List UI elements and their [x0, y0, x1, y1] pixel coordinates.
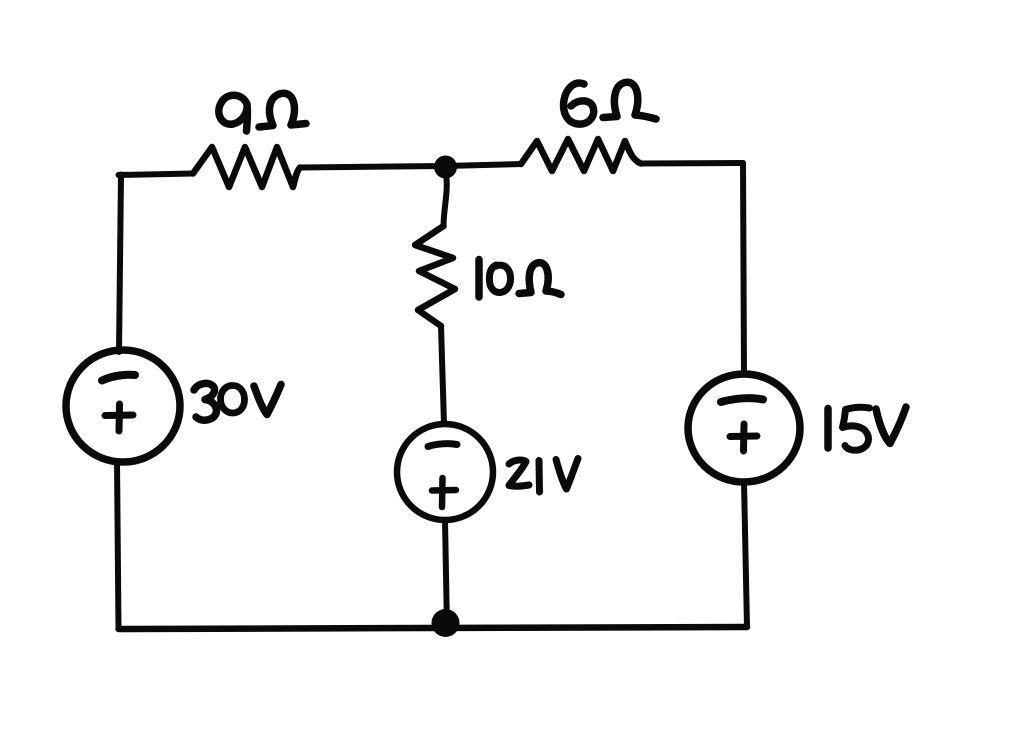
wire left vertical top (corner to 30V source)	[119, 175, 121, 353]
21V plus sign	[432, 478, 456, 507]
wire right vertical bottom (15V to bottom-right corner)	[744, 482, 747, 627]
label V (of 15V)	[876, 407, 906, 444]
label V (of 30V)	[254, 385, 281, 415]
wire 6ohm to top-right corner	[641, 160, 743, 167]
resistor R 10ohm (vertical zigzag)	[415, 226, 455, 326]
voltage source V 21V circle	[397, 424, 493, 520]
wire right vertical top (corner to 15V source)	[743, 163, 744, 374]
label ohm (of 10ohm)	[519, 263, 561, 295]
resistor R 6ohm	[521, 139, 641, 171]
30V plus sign	[105, 404, 133, 431]
label 2 (of 21V)	[509, 460, 529, 486]
wire node A to 6ohm resistor	[445, 164, 521, 166]
label ohm (of 9ohm)	[259, 93, 306, 127]
21V minus sign	[428, 444, 457, 447]
label 1 (of 10ohm)	[475, 260, 483, 298]
label 0 (of 30V)	[221, 386, 245, 414]
wire 21V to bottom node B	[445, 520, 447, 628]
label 6 (of 6ohm)	[564, 83, 594, 124]
label 9 (of 9ohm)	[219, 95, 248, 131]
wire node A down to 10ohm resistor (wavy lead)	[444, 179, 447, 226]
30V minus sign	[102, 375, 135, 381]
wire bottom horizontal	[119, 627, 748, 629]
wire top middle (R9 to node A)	[300, 166, 445, 168]
node A (top junction dot)	[434, 156, 457, 179]
label V (of 21V)	[556, 459, 578, 490]
label 0 (of 10ohm)	[489, 265, 510, 293]
wire left vertical bottom (30V to bottom-left corner)	[117, 461, 119, 629]
resistor R 9ohm	[193, 147, 300, 187]
label 1 (of 15V)	[824, 409, 832, 449]
label 5 (of 15V)	[843, 407, 870, 450]
label 3 (of 30V)	[194, 383, 216, 420]
label ohm (of 6ohm)	[603, 82, 656, 119]
15V minus sign	[721, 398, 763, 402]
wire top-left horizontal	[119, 174, 194, 176]
voltage source V 30V circle	[66, 350, 180, 462]
voltage source V 15V circle	[688, 374, 800, 482]
15V plus sign	[730, 424, 757, 451]
wire 10ohm to 21V source	[441, 326, 444, 424]
label 1 (of 21V)	[536, 461, 544, 493]
node B (bottom junction dot)	[432, 609, 460, 637]
